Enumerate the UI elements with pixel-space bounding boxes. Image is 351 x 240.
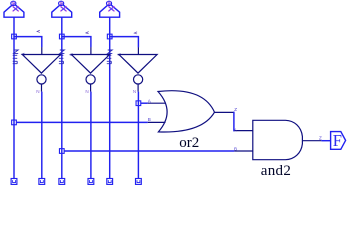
svg-text:F: F [333, 131, 342, 150]
instance name squiggle U1 [13, 50, 19, 64]
pin hook mark branch C [134, 32, 137, 34]
instance name squiggle U2 [59, 50, 65, 64]
wire branch B to inverter U2 input pin [62, 37, 91, 48]
wire net pad P2 to AND gate pin B [64, 150, 234, 152]
OR gate U4 body [158, 91, 215, 132]
input pad P3 [100, 1, 120, 17]
svg-text:N: N [133, 89, 136, 94]
terminal T3 [59, 179, 65, 185]
junction on pad P1 stem [12, 34, 17, 39]
svg-text:B: B [148, 117, 151, 122]
wire pad P2 stem down to terminal [61, 17, 63, 178]
wire net U3 out to OR gate pin A [141, 102, 148, 104]
pin hook mark inverter U3 input-left [118, 54, 121, 56]
AND gate U5 body [253, 120, 303, 159]
terminal T1 [11, 179, 17, 185]
input pad P1 [4, 1, 24, 17]
wire net OR output to AND input A [233, 112, 234, 130]
wire inverter U3 output to terminal [137, 92, 139, 179]
AND gate input pin stub A [234, 130, 253, 132]
svg-text:and2: and2 [261, 163, 291, 179]
pin hook mark branch A [37, 30, 40, 32]
input pad P2 [52, 1, 72, 17]
terminal T4 [88, 179, 94, 185]
AND gate output pin stub Z [302, 140, 321, 142]
wire net pad P1 to OR gate pin B [17, 121, 148, 123]
pin hook mark inverter U1 input-left [22, 53, 25, 55]
wire branch C to inverter U3 input pin [110, 37, 139, 48]
svg-text:Z: Z [234, 107, 237, 112]
AND gate input pin stub B [234, 150, 253, 152]
junction on U3 output for OR input A [136, 101, 141, 106]
svg-text:N: N [85, 89, 88, 94]
terminal T2 [39, 179, 45, 185]
terminal T6 [136, 179, 142, 185]
wire pad P3 stem down to terminal [109, 17, 111, 178]
junction on pad P1 stem for OR input B [12, 120, 17, 125]
pin hook mark inverter U2 input-left [70, 54, 73, 56]
svg-text:or2: or2 [179, 135, 199, 151]
wire pad P1 stem down to terminal [13, 17, 15, 178]
junction on pad P3 stem [107, 34, 112, 39]
pin hook mark branch B [86, 32, 89, 34]
svg-text:Z: Z [319, 136, 322, 141]
inverter U1 [22, 47, 60, 91]
junction on pad P2 stem for AND input B [59, 149, 64, 154]
inverter U3 [119, 47, 157, 91]
output pad F [331, 132, 346, 150]
terminal T5 [107, 179, 113, 185]
svg-text:N: N [36, 89, 39, 94]
wire net AND output to pad F [321, 140, 330, 142]
svg-text:B: B [234, 147, 237, 152]
inverter U2 [71, 47, 109, 91]
wire inverter U1 output to terminal [41, 92, 43, 179]
junction on pad P2 stem [59, 34, 64, 39]
OR gate output pin stub Z [215, 111, 234, 113]
instance name squiggle U3 [107, 50, 113, 64]
wire inverter U2 output to terminal [90, 92, 92, 179]
OR gate input pin stub B [148, 121, 166, 123]
wire branch A to inverter U1 input pin [14, 37, 42, 48]
OR gate input pin stub A [148, 102, 166, 104]
